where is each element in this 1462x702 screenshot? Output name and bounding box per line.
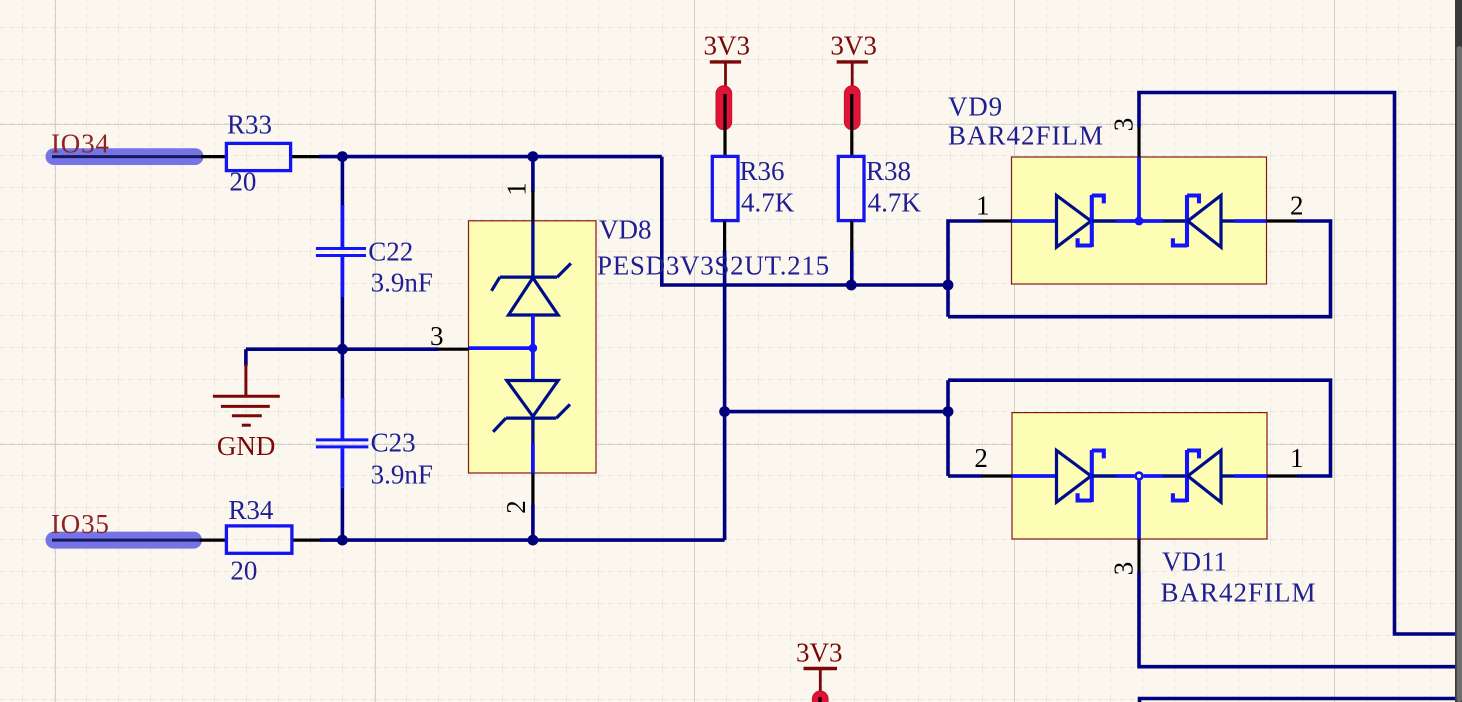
wire R36 column vertical: [723, 251, 727, 540]
wire bottom right: [1140, 699, 1462, 702]
node center VD11 (open): [1136, 473, 1143, 480]
svg-text:GND: GND: [217, 431, 276, 461]
resistor R33 pins: [201, 155, 321, 158]
svg-text:3V3: 3V3: [830, 31, 877, 61]
wire VD9 pin2 return loop: [948, 221, 1331, 317]
power port 3V3 (R38): [830, 31, 877, 97]
pin 1 of VD11: [1267, 474, 1297, 477]
wire inside VD8 vertical: [531, 315, 535, 381]
svg-text:3: 3: [430, 321, 444, 351]
svg-text:2: 2: [974, 443, 988, 473]
svg-text:VD11: VD11: [1162, 547, 1227, 577]
zener diode lower (VD8): [493, 381, 570, 432]
svg-text:BAR42FILM: BAR42FILM: [948, 121, 1104, 151]
power port 3V3 (R36): [704, 31, 751, 97]
node center VD9: [1135, 217, 1144, 226]
node junction (342,349): [337, 344, 348, 355]
pin top of R36: [723, 94, 726, 156]
schottky diode right (VD9): [1163, 195, 1267, 247]
svg-text:PESD3V3S2UT.215: PESD3V3S2UT.215: [597, 251, 830, 281]
svg-text:3V3: 3V3: [704, 31, 751, 61]
svg-text:1: 1: [1290, 443, 1304, 473]
resistor R36: [712, 156, 738, 220]
capacitor C23 lead lower: [340, 448, 344, 487]
pin top (bottom 3V3): [818, 697, 821, 702]
capacitor C22 plates: [316, 247, 366, 250]
pin bottom of R36: [723, 221, 726, 252]
component VD9 body: [1012, 157, 1267, 284]
node center VD8: [529, 344, 538, 353]
pin 1 of VD8: [531, 157, 535, 192]
net highlight IO35: [46, 532, 203, 549]
wire VD9 pin3 to right side: [1139, 93, 1462, 635]
svg-text:20: 20: [230, 556, 257, 586]
svg-text:20: 20: [229, 167, 256, 197]
capacitor C22 lead lower: [340, 257, 344, 297]
wire IO35 net horizontal: [320, 538, 725, 542]
wire IO35 highlighted segment: [52, 539, 200, 542]
pin 3 of VD8: [439, 348, 469, 351]
resistor R34: [226, 526, 292, 553]
scrollbar thumb: [1457, 46, 1462, 702]
node junction (948,285): [943, 280, 954, 291]
svg-text:IO35: IO35: [51, 509, 110, 539]
component VD8 body: [469, 221, 597, 473]
pin 3 of VD11: [1137, 481, 1141, 539]
resistor R34 pins: [200, 538, 322, 541]
wire GND stub vertical: [244, 349, 248, 366]
wire inside VD11 center: [1116, 474, 1134, 478]
node junction (851,285): [846, 280, 857, 291]
capacitor C23 lead upper: [341, 349, 345, 400]
wire R38 bottom to net: [850, 251, 854, 285]
svg-text:2: 2: [1290, 191, 1304, 221]
resistor R33: [226, 143, 290, 170]
wire GND net horizontal: [246, 347, 439, 351]
svg-text:3: 3: [1109, 118, 1139, 132]
schottky diode left (VD9): [1012, 195, 1117, 247]
svg-text:1: 1: [976, 191, 990, 221]
wire IO34 highlighted segment: [52, 155, 201, 158]
component VD11 body: [1012, 413, 1267, 539]
pin 2 of VD11: [982, 474, 1012, 477]
node junction (948,411): [943, 406, 954, 417]
wire VD11 top loop: [948, 380, 1331, 476]
svg-text:3: 3: [1109, 562, 1139, 576]
pin bottom of R38: [850, 221, 853, 252]
svg-text:C23: C23: [371, 428, 416, 458]
node junction (533,156): [528, 151, 539, 162]
schottky diode right (VD11): [1163, 450, 1267, 502]
node junction (342,540): [337, 535, 348, 546]
scrollbar track: [1455, 0, 1462, 702]
wire IO34 net horizontal: [319, 155, 662, 159]
pin 3 of VD9: [1137, 157, 1141, 221]
pin 1 of VD9: [982, 219, 1012, 222]
svg-text:C22: C22: [368, 237, 413, 267]
capacitor C23 plates: [316, 438, 368, 441]
pin 2 of VD9: [1267, 219, 1298, 222]
zener diode upper (VD8): [492, 263, 571, 315]
capacitor C22 lead upper: [341, 157, 345, 207]
wire inside VD9 center: [1116, 219, 1163, 223]
net highlight IO34: [46, 148, 204, 165]
svg-text:R34: R34: [228, 495, 274, 525]
svg-text:VD9: VD9: [948, 92, 1003, 122]
wire VD11 pin2 riser: [946, 380, 950, 476]
wire net y=411 horizontal: [725, 410, 948, 414]
svg-text:4.7K: 4.7K: [868, 188, 922, 218]
svg-text:VD8: VD8: [599, 215, 652, 245]
node junction (342,156): [337, 151, 348, 162]
svg-text:4.7K: 4.7K: [741, 188, 795, 218]
node junction (533,540): [528, 535, 539, 546]
svg-text:3.9nF: 3.9nF: [371, 268, 433, 298]
ground symbol GND: [213, 364, 280, 425]
red capsule marker (R36 top): [716, 86, 732, 130]
power port 3V3 (bottom): [796, 638, 843, 697]
pin 3 of VD8 wire inside: [469, 346, 533, 350]
svg-text:IO34: IO34: [51, 129, 110, 159]
resistor R38: [838, 156, 864, 220]
red capsule marker (bottom): [812, 691, 828, 702]
wire VD9 pin1 riser: [948, 221, 982, 317]
node junction (724,411): [719, 406, 730, 417]
svg-text:R36: R36: [740, 156, 785, 186]
svg-text:R38: R38: [866, 156, 911, 186]
svg-text:2: 2: [501, 500, 531, 514]
pin 2 of VD8: [531, 418, 534, 445]
wire VD11 pin3 to right edge: [1139, 572, 1462, 667]
red capsule marker (R38 top): [844, 86, 860, 130]
svg-text:3V3: 3V3: [796, 638, 843, 668]
svg-text:1: 1: [502, 182, 532, 196]
schottky diode left (VD11): [1012, 450, 1116, 502]
svg-text:R33: R33: [227, 110, 272, 140]
svg-text:BAR42FILM: BAR42FILM: [1161, 578, 1317, 608]
wire IO34 net vertical drop at x=660: [662, 157, 948, 285]
svg-text:3.9nF: 3.9nF: [371, 460, 433, 490]
wire VD11 pin2 stub: [948, 474, 982, 478]
pin top of R38: [850, 94, 853, 156]
